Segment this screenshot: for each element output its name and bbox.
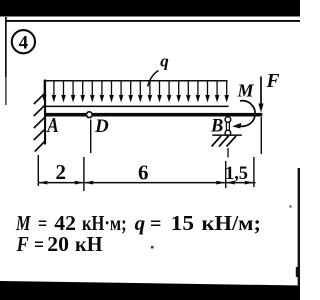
- svg-text:кН·м;: кН·м;: [82, 211, 127, 235]
- distributed load baseline: [44, 106, 229, 108]
- svg-text:2: 2: [56, 160, 67, 184]
- wall hatching: [34, 94, 45, 152]
- dimension dash below B: [227, 148, 228, 158]
- svg-text:=: =: [38, 211, 47, 235]
- dimension line: [38, 182, 256, 184]
- dimension extension line below D (upper): [90, 120, 91, 154]
- extension line below beam end: [261, 117, 262, 154]
- force F arrow: [260, 77, 262, 105]
- moment M curved arrow: [237, 101, 256, 127]
- svg-text:M: M: [15, 211, 31, 235]
- svg-text:кН/м;: кН/м;: [202, 211, 262, 235]
- dimension tick at right end: [253, 157, 254, 187]
- svg-text:кН: кН: [75, 232, 103, 256]
- svg-text:4: 4: [19, 32, 29, 53]
- svg-text:M: M: [237, 81, 255, 101]
- hinge D: [86, 112, 92, 118]
- dimension tick at B: [225, 161, 226, 188]
- svg-text:q: q: [135, 211, 146, 235]
- svg-text:F: F: [16, 232, 29, 256]
- dimension arrows: [38, 181, 254, 185]
- ground line at B: [212, 134, 242, 136]
- dimension tick at D: [83, 157, 84, 191]
- svg-text:15: 15: [171, 211, 194, 235]
- svg-text:B: B: [210, 116, 223, 136]
- fixed support wall at A: [44, 80, 46, 145]
- svg-text:q: q: [160, 52, 169, 71]
- dimension extension line below A: [38, 155, 39, 186]
- svg-text:=: =: [150, 211, 162, 235]
- stray scan dot: [151, 246, 154, 249]
- svg-text:20: 20: [47, 232, 69, 256]
- q leader line: [148, 71, 159, 87]
- given data text line 1: [15, 211, 261, 235]
- svg-text:=: =: [34, 232, 44, 256]
- problem number badge 4: [12, 30, 35, 53]
- svg-text:1,5: 1,5: [225, 164, 248, 184]
- distributed load q top line: [44, 80, 228, 82]
- svg-text:F: F: [266, 71, 280, 92]
- svg-text:6: 6: [138, 160, 149, 184]
- distributed load arrows: [42, 81, 229, 102]
- roller support at B : pin circles and link: [225, 117, 231, 123]
- beam AB: [44, 113, 262, 117]
- svg-text:42: 42: [54, 211, 76, 235]
- given data text line 2: [16, 232, 103, 256]
- ground hatching at B: [212, 136, 237, 147]
- svg-text:A: A: [46, 113, 59, 137]
- svg-text:D: D: [94, 116, 109, 137]
